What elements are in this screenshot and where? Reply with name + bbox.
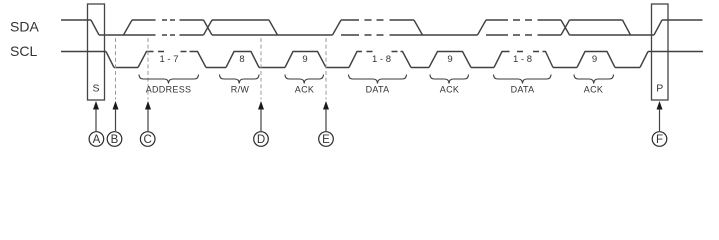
brace ACK 2 bbox=[430, 75, 469, 84]
callout circle E bbox=[319, 132, 334, 147]
marker dashed line E bbox=[325, 38, 327, 100]
marker dashed line D bbox=[260, 38, 262, 100]
SCL pulse 9 (ACK) bbox=[285, 52, 326, 68]
SDA falling edge (envelope close) bbox=[623, 20, 631, 35]
SDA crossover 2 bbox=[561, 20, 570, 35]
arrow F bbox=[657, 101, 663, 131]
svg-text:A: A bbox=[93, 134, 101, 146]
svg-text:S: S bbox=[92, 83, 99, 95]
SDA tail wire bbox=[662, 19, 703, 21]
SCL pulse 9 (ACK) bbox=[429, 52, 471, 68]
brace ADDRESS bbox=[139, 75, 199, 84]
SCL low wire bbox=[259, 67, 285, 69]
SCL pulse 9 (ACK) bbox=[577, 52, 615, 68]
callout circle B bbox=[107, 132, 122, 147]
SCL pulse 1-7 bbox=[138, 52, 206, 68]
SDA low wire bbox=[99, 34, 156, 36]
SDA envelope wires bbox=[486, 20, 508, 35]
SCL low wire bbox=[114, 67, 138, 69]
SCL falling edge after start bbox=[106, 52, 114, 68]
SCL pulse 8 bbox=[226, 52, 259, 68]
svg-text:DATA: DATA bbox=[511, 84, 535, 94]
SDA break dashes 1 bbox=[162, 20, 175, 35]
callout circle A bbox=[89, 132, 104, 147]
svg-text:ACK: ACK bbox=[295, 84, 314, 94]
SCL low wire bbox=[326, 67, 349, 69]
SDA start-condition falling edge bbox=[91, 20, 99, 35]
SDA rising edge (envelope open) bbox=[333, 20, 342, 35]
SCL final rising edge bbox=[640, 52, 648, 68]
marker dashed line B bbox=[115, 38, 117, 100]
marker dashed line C bbox=[147, 38, 149, 100]
start box S bbox=[88, 4, 105, 100]
brace DATA 2 bbox=[494, 75, 552, 84]
SDA falling edge (envelope close) bbox=[414, 20, 423, 35]
svg-text:1 - 8: 1 - 8 bbox=[372, 54, 391, 65]
callout circle C bbox=[140, 132, 155, 147]
callout circle D bbox=[254, 132, 269, 147]
svg-text:D: D bbox=[257, 134, 265, 146]
SCL pulse 1-8 bbox=[349, 52, 411, 68]
SDA high wire bbox=[132, 19, 156, 21]
brace DATA 1 bbox=[349, 75, 407, 84]
SDA envelope wires bbox=[570, 20, 655, 35]
svg-text:1 - 7: 1 - 7 bbox=[159, 54, 178, 65]
SCL low wire bbox=[553, 67, 577, 69]
SDA falling edge (envelope close) bbox=[269, 20, 278, 35]
arrow B bbox=[113, 101, 119, 131]
SCL low wire bbox=[411, 67, 429, 69]
SDA envelope wires bbox=[212, 20, 333, 35]
svg-text:ADDRESS: ADDRESS bbox=[146, 84, 192, 94]
SCL pulse 1-8 bbox=[494, 52, 553, 68]
svg-text:9: 9 bbox=[447, 54, 452, 65]
stop box P bbox=[652, 4, 669, 100]
SCL low wire bbox=[471, 67, 494, 69]
svg-text:8: 8 bbox=[239, 54, 244, 65]
svg-text:ACK: ACK bbox=[584, 84, 603, 94]
SDA envelope wires bbox=[538, 20, 562, 35]
brace R/W bbox=[220, 75, 260, 84]
SCL lead-in wire bbox=[61, 51, 106, 53]
SDA lead-in wire bbox=[61, 19, 91, 21]
brace ACK 1 bbox=[285, 75, 324, 84]
svg-text:9: 9 bbox=[302, 54, 307, 65]
svg-text:SCL: SCL bbox=[10, 43, 37, 59]
SCL tail wire bbox=[648, 51, 703, 53]
SCL low wire bbox=[615, 67, 640, 69]
SDA rising edge (envelope open) bbox=[124, 20, 133, 35]
svg-text:P: P bbox=[656, 83, 663, 95]
SCL low wire bbox=[206, 67, 226, 69]
SDA rising edge (envelope open) bbox=[478, 20, 487, 35]
arrow A bbox=[93, 101, 99, 131]
svg-text:F: F bbox=[656, 134, 663, 146]
SDA stop-condition rising edge bbox=[654, 20, 662, 35]
SDA break dashes 3 bbox=[513, 20, 532, 35]
SDA envelope wires bbox=[341, 20, 359, 35]
svg-text:SDA: SDA bbox=[10, 19, 39, 35]
svg-text:9: 9 bbox=[592, 54, 597, 65]
SDA envelope wires bbox=[390, 20, 478, 35]
svg-text:DATA: DATA bbox=[366, 84, 390, 94]
svg-text:ACK: ACK bbox=[440, 84, 459, 94]
svg-text:1 - 8: 1 - 8 bbox=[513, 54, 532, 65]
SDA crossover 1 bbox=[204, 20, 213, 35]
svg-text:R/W: R/W bbox=[231, 84, 250, 94]
arrow D bbox=[258, 101, 264, 131]
svg-text:B: B bbox=[111, 134, 119, 146]
svg-text:E: E bbox=[322, 134, 330, 146]
SDA envelope wires bbox=[180, 20, 204, 35]
arrow E bbox=[323, 101, 329, 131]
callout circle F bbox=[652, 132, 667, 147]
arrow C bbox=[145, 101, 151, 131]
svg-text:C: C bbox=[144, 134, 152, 146]
SDA break dashes 2 bbox=[365, 20, 384, 35]
brace ACK 3 bbox=[574, 75, 614, 84]
